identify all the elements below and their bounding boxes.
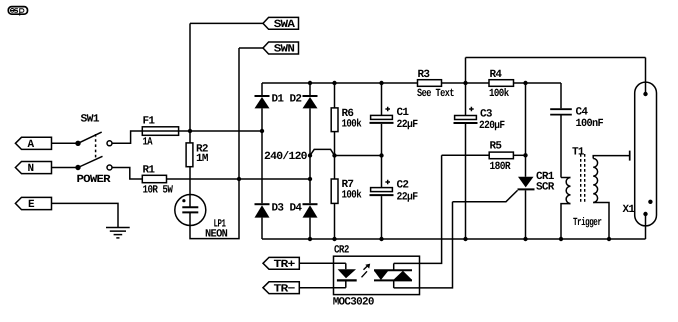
resistor R5 180R — [442, 140, 526, 173]
svg-text:D1: D1 — [272, 94, 285, 106]
wire D1 anode to D3 cathode — [261, 108, 263, 203]
diode D3 — [255, 202, 285, 239]
wire N-node to bridge — [239, 178, 310, 180]
svg-text:C3: C3 — [480, 109, 493, 121]
wire neon bottom to N-node — [190, 179, 239, 239]
node A to bridge junction — [260, 129, 264, 133]
switch SW1 (DPST POWER) — [75, 114, 112, 187]
rail segment R4 to C4 — [514, 82, 562, 84]
svg-text:N: N — [28, 163, 34, 175]
fuse F1 1A — [142, 116, 190, 149]
svg-text:See Text: See Text — [417, 88, 454, 100]
svg-text:SWA: SWA — [274, 19, 296, 31]
capacitor C1 22uF — [370, 83, 418, 156]
CR2 LED — [337, 263, 357, 287]
capacitor C2 22uF — [370, 156, 418, 240]
ground — [106, 228, 130, 238]
transformer T1 — [561, 147, 630, 239]
svg-text:R3: R3 — [418, 69, 431, 81]
junction CR1 cathode bottom rail — [523, 237, 527, 241]
resistor R4 100k — [489, 69, 514, 100]
svg-text:TR+: TR+ — [274, 259, 296, 271]
wire E to ground — [52, 203, 119, 227]
svg-text:22µF: 22µF — [397, 191, 418, 203]
svg-text:220µF: 220µF — [479, 120, 505, 132]
svg-text:MOC3020: MOC3020 — [333, 296, 374, 308]
node N to bridge junction — [308, 177, 312, 181]
wire N to SW1 pole — [52, 167, 77, 169]
capacitor C3 220uF — [454, 83, 505, 239]
wire link to C1/C2 midpoint — [335, 155, 382, 157]
wire A to SW1 pole — [52, 142, 77, 144]
rail segment R3 to node — [442, 82, 490, 84]
svg-text:SCR: SCR — [536, 181, 555, 193]
svg-text:SW1: SW1 — [81, 114, 100, 126]
wire triac MT1 to SCR gate — [394, 202, 453, 288]
junction R5 to SCR anode line — [523, 153, 527, 157]
junction R4 to SCR anode — [523, 81, 527, 85]
svg-text:D3: D3 — [272, 202, 285, 214]
wire D2 anode to D4 cathode — [309, 108, 311, 203]
connector SWN — [263, 42, 299, 56]
junction T1 secondary bottom rail — [607, 237, 611, 241]
wire node up to anode rail — [465, 58, 467, 84]
thyristor CR1 SCR — [453, 83, 555, 239]
240/120 voltage select link — [264, 149, 337, 163]
svg-text:X1: X1 — [623, 204, 636, 216]
wire A-node to bridge — [190, 130, 262, 132]
junction T1 primary bottom rail — [559, 237, 563, 241]
junction C1/C2 midpoint — [379, 153, 383, 157]
svg-text:100nF: 100nF — [576, 118, 604, 130]
lamp LP1 NEON — [175, 195, 227, 241]
svg-text:100k: 100k — [342, 189, 363, 201]
junction C2 bottom rail — [379, 237, 383, 241]
svg-text:R1: R1 — [143, 164, 156, 176]
optocoupler CR2 MOC3020 box — [333, 244, 420, 308]
positive rail y=83 — [262, 82, 418, 84]
svg-text:CR2: CR2 — [334, 244, 349, 256]
resistor R3 See Text — [417, 69, 454, 100]
junction R6 top rail — [332, 81, 336, 85]
resistor R7 100k — [331, 156, 362, 240]
resistor R1 10R 5W — [142, 164, 173, 196]
junction R7 bottom rail — [332, 237, 336, 241]
CR2 light arrow — [362, 264, 371, 278]
wire TR+ to LED anode — [299, 262, 346, 264]
junction D2 top rail — [308, 81, 312, 85]
svg-text:C2: C2 — [397, 179, 409, 191]
svg-text:100k: 100k — [342, 118, 363, 130]
wire SWA vertical — [189, 23, 191, 131]
svg-text:R5: R5 — [490, 140, 503, 152]
wire SWN horizontal — [239, 47, 263, 49]
svg-text:22µF: 22µF — [397, 119, 418, 131]
esp logo — [8, 7, 27, 16]
svg-text:T1: T1 — [572, 147, 585, 159]
diode D2 — [290, 83, 318, 108]
svg-text:240/120: 240/120 — [264, 151, 307, 163]
node A junction — [188, 129, 192, 133]
svg-text:1A: 1A — [143, 137, 153, 149]
svg-text:1M: 1M — [196, 153, 209, 165]
CR2 triac — [374, 263, 412, 288]
node after R3 junction — [463, 81, 467, 85]
wire R1 to N-node — [167, 178, 240, 180]
diode D1 — [255, 83, 285, 108]
wire SW1 bottom throw to R1 — [112, 168, 142, 180]
connector N — [15, 162, 51, 176]
connector TR- — [263, 282, 299, 296]
flash tube X1 — [623, 58, 657, 240]
svg-text:100k: 100k — [489, 88, 510, 100]
svg-text:SWN: SWN — [274, 44, 294, 56]
svg-text:D4: D4 — [290, 202, 303, 214]
svg-text:180R: 180R — [490, 161, 511, 173]
wire SWA horizontal — [190, 22, 263, 24]
svg-text:F1: F1 — [143, 116, 156, 128]
svg-text:C4: C4 — [576, 106, 589, 118]
node N junction (R1/SWN/neon) — [237, 177, 241, 181]
wire SW1 top throw to F1 — [112, 131, 142, 143]
svg-text:C1: C1 — [397, 107, 410, 119]
junction C3 bottom rail — [463, 237, 467, 241]
connector TR+ — [263, 257, 299, 271]
junction C1 top rail — [379, 81, 383, 85]
connector E — [15, 197, 51, 211]
wire triac MT2 to R5 — [394, 155, 442, 263]
connector SWA — [263, 17, 299, 31]
resistor R2 1M — [186, 131, 209, 195]
wire TR- to LED cathode — [299, 287, 346, 289]
svg-text:TR−: TR− — [274, 284, 296, 296]
svg-text:10R 5W: 10R 5W — [143, 184, 174, 196]
connector A — [15, 137, 51, 151]
diode D4 — [290, 202, 318, 239]
svg-text:POWER: POWER — [77, 174, 112, 186]
junction D4 bottom rail — [308, 237, 312, 241]
svg-text:Trigger: Trigger — [573, 217, 601, 229]
negative rail y=239 — [262, 238, 646, 240]
svg-text:D2: D2 — [290, 94, 302, 106]
svg-text:R4: R4 — [490, 69, 503, 81]
capacitor C4 100nF — [550, 83, 603, 178]
resistor R6 100k — [331, 83, 362, 156]
wire SWN vertical — [238, 48, 240, 179]
anode rail y=57.5 — [466, 57, 646, 59]
